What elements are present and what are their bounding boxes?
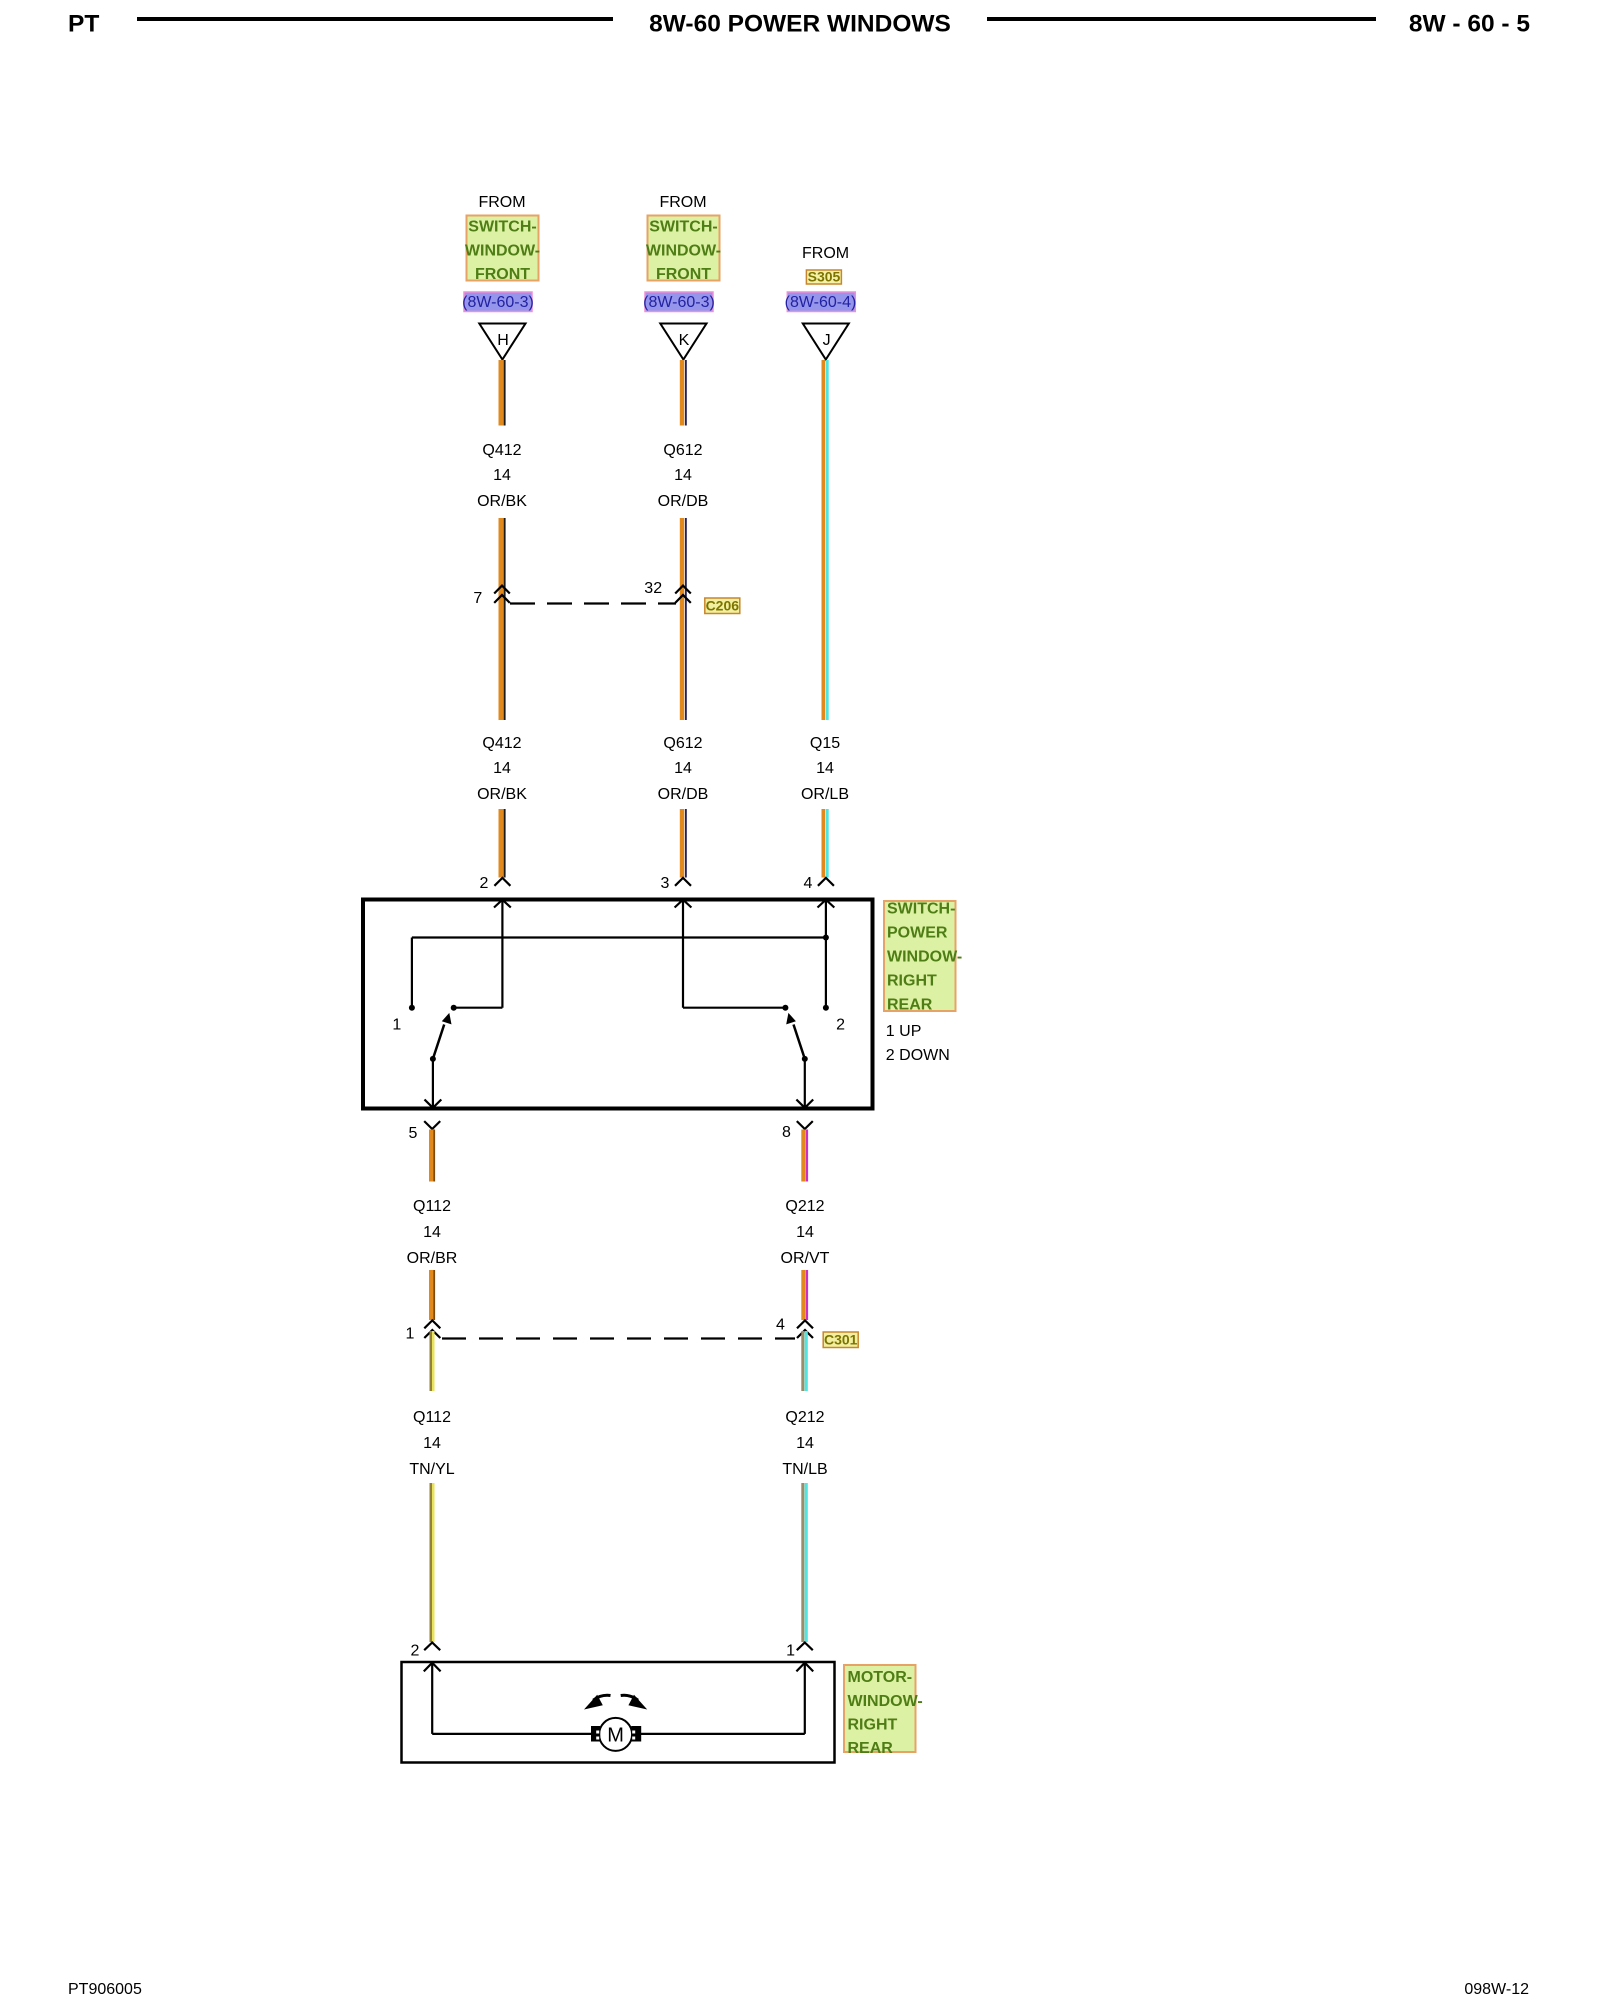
inline connector C301 pin 4 chevrons (797, 1320, 813, 1338)
motor internal wire left (432, 1733, 592, 1735)
svg-text:Q112: Q112 (413, 1409, 451, 1426)
switch internal bus horizontal (412, 936, 826, 938)
switch terminal arrow pin 3 (inside) (675, 900, 692, 1008)
svg-text:FROM: FROM (478, 194, 525, 211)
svg-text:K: K (679, 332, 690, 349)
wire label Q15 14 OR/LB (801, 735, 849, 803)
svg-text:FRONT: FRONT (656, 266, 711, 283)
component box SWITCH-WINDOW-FRONT (col K) (646, 216, 721, 284)
connector label C301 (823, 1332, 858, 1348)
contact dot right up (782, 1005, 788, 1011)
svg-text:098W-12: 098W-12 (1464, 1981, 1529, 1998)
wire Q612 OR/DB segment 2 (680, 518, 687, 720)
splice S305 (806, 269, 841, 285)
switch internal wire to up contact (454, 1007, 503, 1009)
svg-text:PT906005: PT906005 (68, 1981, 142, 1998)
reference (8W-60-4) col J (785, 292, 857, 312)
motor M circle (599, 1718, 632, 1751)
svg-text:Q212: Q212 (785, 1198, 824, 1215)
svg-text:14: 14 (493, 467, 511, 484)
svg-text:2: 2 (836, 1017, 845, 1034)
inline connector C301 pin 1 chevrons (424, 1320, 440, 1338)
switch internal bus left drop (411, 938, 413, 1008)
wire label Q212 14 OR/VT (781, 1198, 830, 1267)
wire label Q412 14 OR/BK (lower) (477, 735, 527, 803)
wire Q412 OR/BK segment 3 (499, 809, 506, 878)
svg-text:(8W-60-3): (8W-60-3) (643, 294, 715, 311)
svg-text:SWITCH-: SWITCH- (887, 901, 955, 918)
switch connector pin 4 chevron (818, 878, 834, 886)
svg-text:H: H (497, 332, 509, 349)
svg-text:1 UP: 1 UP (886, 1023, 922, 1040)
wire Q112 OR/BR segment 1 (429, 1130, 435, 1182)
svg-text:8W-60 POWER WINDOWS: 8W-60 POWER WINDOWS (649, 10, 951, 37)
svg-text:TN/LB: TN/LB (782, 1461, 827, 1478)
svg-text:MOTOR-: MOTOR- (848, 1669, 913, 1686)
wire label Q412 14 OR/BK (upper) (477, 442, 527, 510)
svg-text:PT: PT (68, 10, 99, 37)
svg-text:RIGHT: RIGHT (848, 1717, 898, 1734)
motor brush right (631, 1726, 641, 1742)
connector triangle J (803, 324, 849, 360)
svg-text:OR/DB: OR/DB (658, 786, 709, 803)
wire Q212 OR/VT segment 1 (801, 1130, 808, 1182)
svg-text:8: 8 (782, 1124, 791, 1141)
svg-text:OR/DB: OR/DB (658, 493, 709, 510)
svg-text:2 DOWN: 2 DOWN (886, 1047, 950, 1064)
switch connector pin 3 chevron (675, 878, 691, 886)
motor terminal arrow pin 1 (inside) (796, 1663, 813, 1734)
svg-text:Q112: Q112 (413, 1198, 451, 1215)
svg-text:FROM: FROM (659, 194, 706, 211)
wire Q412 OR/BK segment 1 (499, 360, 506, 426)
switch arm left (wiper) (430, 1013, 452, 1062)
svg-text:SWITCH-: SWITCH- (649, 219, 717, 236)
wire label Q612 14 OR/DB (upper) (658, 442, 709, 510)
svg-text:WINDOW-: WINDOW- (887, 949, 962, 966)
dashed connector line C301 (442, 1337, 795, 1339)
svg-text:POWER: POWER (887, 925, 948, 942)
motor connector pin 1 chevron (797, 1643, 813, 1651)
wire label Q112 14 TN/YL (409, 1409, 454, 1478)
svg-text:OR/BR: OR/BR (407, 1250, 458, 1267)
svg-text:14: 14 (674, 760, 692, 777)
motor terminal arrow pin 2 (inside) (424, 1663, 441, 1734)
switch connector pin 2 chevron (494, 878, 510, 886)
motor brush left (591, 1726, 600, 1742)
svg-text:WINDOW-: WINDOW- (465, 243, 540, 260)
svg-text:Q412: Q412 (482, 442, 521, 459)
svg-text:RIGHT: RIGHT (887, 973, 937, 990)
svg-text:4: 4 (804, 875, 813, 892)
svg-text:S305: S305 (808, 269, 841, 285)
svg-text:C301: C301 (824, 1332, 858, 1348)
svg-text:M: M (607, 1725, 624, 1747)
wire Q15 OR/LB segment 2 (822, 809, 829, 878)
svg-text:3: 3 (661, 875, 670, 892)
svg-text:Q612: Q612 (663, 735, 702, 752)
wire label Q212 14 TN/LB (782, 1409, 827, 1478)
switch internal wire to right contact (683, 1007, 785, 1009)
motor internal wire right (640, 1733, 804, 1735)
wire Q212 TN/LB segment 1 (801, 1331, 808, 1391)
svg-text:(8W-60-4): (8W-60-4) (785, 294, 857, 311)
wire Q212 TN/LB segment 2 (801, 1483, 808, 1642)
switch arm right output to pin 8 (796, 1059, 813, 1108)
svg-text:Q612: Q612 (663, 442, 702, 459)
svg-text:8W - 60 - 5: 8W - 60 - 5 (1409, 10, 1530, 37)
wire label Q612 14 OR/DB (lower) (658, 735, 709, 803)
svg-text:FRONT: FRONT (475, 266, 530, 283)
svg-text:2: 2 (411, 1643, 420, 1660)
svg-text:REAR: REAR (887, 997, 933, 1014)
svg-text:C206: C206 (706, 598, 740, 614)
switch connector pin 8 chevron (797, 1121, 813, 1129)
svg-text:FROM: FROM (802, 245, 849, 262)
wire Q612 OR/DB segment 1 (680, 360, 687, 426)
reference (8W-60-3) col H (462, 292, 534, 312)
svg-text:J: J (823, 332, 831, 349)
motor connector pin 2 chevron (424, 1643, 440, 1651)
svg-text:OR/BK: OR/BK (477, 493, 527, 510)
svg-text:14: 14 (796, 1224, 814, 1241)
switch terminal arrow pin 2 (inside) (494, 900, 511, 1008)
connector triangle K (660, 324, 706, 360)
svg-text:TN/YL: TN/YL (409, 1461, 454, 1478)
contact dot pin1 (409, 1005, 415, 1011)
svg-text:1: 1 (392, 1017, 401, 1034)
motor rotation arrow left (584, 1695, 611, 1710)
svg-text:WINDOW-: WINDOW- (848, 1693, 923, 1710)
svg-text:WINDOW-: WINDOW- (646, 243, 721, 260)
wire Q612 OR/DB segment 3 (680, 809, 687, 878)
svg-text:1: 1 (406, 1326, 415, 1343)
inline connector C206 pin 32 chevrons (675, 586, 691, 603)
svg-text:7: 7 (473, 590, 482, 607)
svg-text:14: 14 (674, 467, 692, 484)
inline connector C206 pin 7 chevrons (494, 586, 510, 603)
connector label C206 (705, 598, 740, 614)
motor label box MOTOR-WINDOW-RIGHT REAR (844, 1665, 923, 1757)
wire Q112 TN/YL segment 2 (430, 1483, 435, 1642)
svg-text:Q212: Q212 (785, 1409, 824, 1426)
svg-text:2: 2 (480, 875, 489, 892)
svg-text:14: 14 (816, 760, 834, 777)
svg-text:OR/BK: OR/BK (477, 786, 527, 803)
svg-text:32: 32 (644, 580, 662, 597)
contact dot pin2 (823, 1005, 829, 1011)
svg-text:1: 1 (786, 1643, 795, 1660)
switch terminal arrow pin 4 (inside) (818, 900, 835, 938)
svg-text:OR/VT: OR/VT (781, 1250, 830, 1267)
switch arm right (wiper) (786, 1013, 808, 1062)
motor box MOTOR-WINDOW-RIGHT REAR (402, 1662, 835, 1763)
wire Q15 OR/LB segment 1 (822, 360, 829, 720)
motor rotation arrow right (621, 1695, 648, 1710)
wire Q112 TN/YL segment 1 (430, 1331, 435, 1391)
switch internal bus right drop (825, 938, 827, 1008)
svg-text:Q412: Q412 (482, 735, 521, 752)
switch box SWITCH-POWER WINDOW-RIGHT REAR (363, 900, 873, 1109)
component box SWITCH-WINDOW-FRONT (col H) (465, 216, 540, 284)
switch label box SWITCH-POWER WINDOW-RIGHT REAR (884, 901, 962, 1014)
switch arm left output to pin 5 (425, 1059, 442, 1108)
svg-text:REAR: REAR (848, 1740, 894, 1757)
wire Q412 OR/BK segment 2 (499, 518, 506, 720)
connector triangle H (479, 324, 525, 360)
contact dot left up (451, 1005, 457, 1011)
svg-text:14: 14 (493, 760, 511, 777)
switch connector pin 5 chevron (424, 1121, 440, 1129)
svg-text:14: 14 (796, 1435, 814, 1452)
dashed connector line C206 (510, 602, 676, 604)
svg-text:Q15: Q15 (810, 735, 840, 752)
svg-text:14: 14 (423, 1435, 441, 1452)
wire label Q112 14 OR/BR (407, 1198, 458, 1267)
header rule right (987, 17, 1376, 21)
svg-text:SWITCH-: SWITCH- (468, 219, 536, 236)
wire Q112 OR/BR segment 2 (429, 1270, 435, 1320)
header rule left (137, 17, 613, 21)
svg-text:(8W-60-3): (8W-60-3) (462, 294, 534, 311)
svg-text:14: 14 (423, 1224, 441, 1241)
svg-text:OR/LB: OR/LB (801, 786, 849, 803)
svg-text:5: 5 (409, 1125, 418, 1142)
bus junction dot (823, 935, 829, 941)
reference (8W-60-3) col K (643, 292, 715, 312)
svg-text:4: 4 (776, 1317, 785, 1334)
wire Q212 OR/VT segment 2 (801, 1270, 808, 1320)
